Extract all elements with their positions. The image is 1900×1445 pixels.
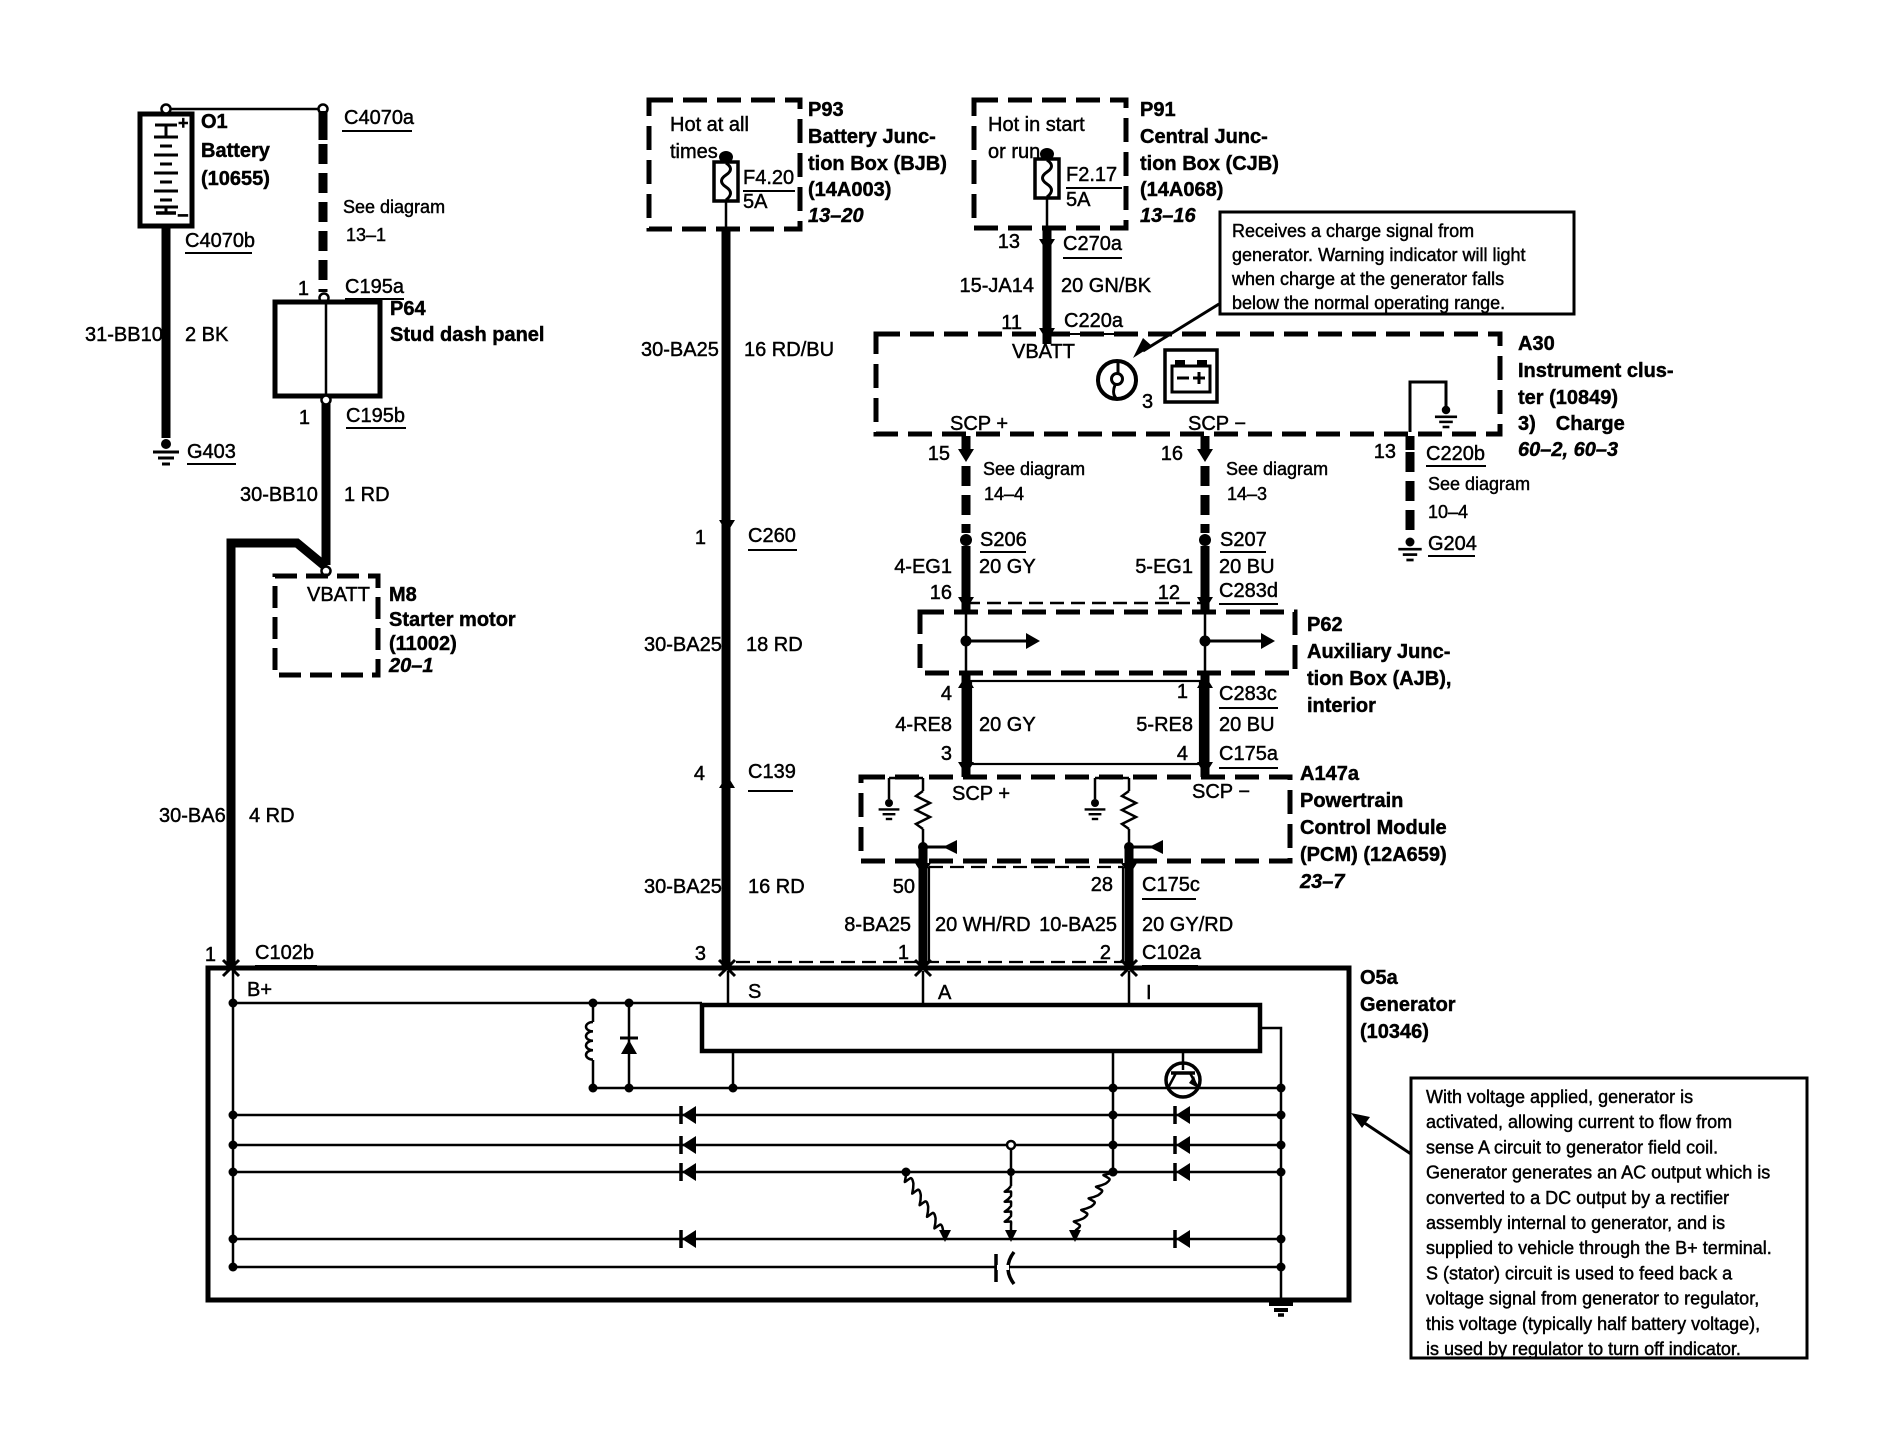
svg-text:20–1: 20–1: [388, 655, 434, 677]
svg-text:1 RD: 1 RD: [344, 484, 390, 506]
svg-text:20 GY/RD: 20 GY/RD: [1142, 914, 1233, 936]
svg-text:14–4: 14–4: [984, 484, 1024, 504]
svg-text:See diagram: See diagram: [343, 197, 445, 217]
svg-text:C283c: C283c: [1219, 683, 1277, 705]
svg-text:Battery Junc-: Battery Junc-: [808, 126, 936, 148]
svg-text:C260: C260: [748, 525, 796, 547]
svg-text:VBATT: VBATT: [307, 584, 370, 606]
svg-text:Generator: Generator: [1360, 994, 1456, 1016]
svg-text:is used by regulator to turn o: is used by regulator to turn off indicat…: [1426, 1339, 1741, 1359]
svg-text:C195b: C195b: [346, 405, 405, 427]
svg-text:4-RE8: 4-RE8: [895, 714, 952, 736]
svg-text:Hot at all: Hot at all: [670, 114, 749, 136]
svg-text:20 GY: 20 GY: [979, 714, 1036, 736]
svg-text:C4070b: C4070b: [185, 230, 255, 252]
svg-text:C4070a: C4070a: [344, 107, 415, 129]
svg-text:13: 13: [1374, 441, 1396, 463]
svg-text:1: 1: [205, 944, 216, 966]
svg-text:tion Box (BJB): tion Box (BJB): [808, 153, 947, 175]
svg-text:Control Module: Control Module: [1300, 817, 1447, 839]
svg-text:B+: B+: [247, 979, 272, 1001]
svg-text:23–7: 23–7: [1299, 871, 1345, 893]
svg-text:13–16: 13–16: [1140, 205, 1196, 227]
svg-text:A147a: A147a: [1300, 763, 1360, 785]
svg-text:S206: S206: [980, 529, 1027, 551]
svg-text:20 BU: 20 BU: [1219, 556, 1275, 578]
svg-text:30-BA25: 30-BA25: [644, 634, 722, 656]
svg-text:O1: O1: [201, 111, 228, 133]
svg-text:C102b: C102b: [255, 942, 314, 964]
svg-text:10–4: 10–4: [1428, 502, 1468, 522]
svg-text:O5a: O5a: [1360, 967, 1399, 989]
svg-text:4 RD: 4 RD: [249, 805, 295, 827]
svg-text:11: 11: [1001, 312, 1022, 334]
svg-text:30-BA6: 30-BA6: [159, 805, 226, 827]
svg-text:S207: S207: [1220, 529, 1267, 551]
svg-text:C220b: C220b: [1426, 443, 1485, 465]
svg-text:below the normal operating ran: below the normal operating range.: [1232, 293, 1505, 313]
svg-text:Hot in start: Hot in start: [988, 114, 1085, 136]
svg-text:F2.17: F2.17: [1066, 164, 1117, 186]
svg-text:ter (10849): ter (10849): [1518, 387, 1618, 409]
svg-text:activated, allowing current to: activated, allowing current to flow from: [1426, 1112, 1732, 1132]
svg-text:20 BU: 20 BU: [1219, 714, 1275, 736]
svg-text:Generator generates an AC outp: Generator generates an AC output which i…: [1426, 1163, 1770, 1183]
svg-text:Stud dash panel: Stud dash panel: [390, 324, 544, 346]
svg-text:(11002): (11002): [389, 633, 457, 655]
svg-text:16: 16: [930, 582, 952, 604]
svg-text:50: 50: [893, 876, 915, 898]
svg-text:C102a: C102a: [1142, 942, 1202, 964]
svg-text:SCP +: SCP +: [950, 413, 1008, 435]
svg-text:P91: P91: [1140, 99, 1176, 121]
svg-text:12: 12: [1158, 582, 1180, 604]
svg-text:when charge at the generator f: when charge at the generator falls: [1231, 269, 1504, 289]
svg-text:3: 3: [1142, 391, 1153, 413]
svg-text:5-RE8: 5-RE8: [1136, 714, 1193, 736]
svg-text:C270a: C270a: [1063, 233, 1123, 255]
svg-text:Starter motor: Starter motor: [389, 609, 516, 631]
svg-text:C139: C139: [748, 761, 796, 783]
svg-text:SCP +: SCP +: [952, 783, 1010, 805]
svg-text:See diagram: See diagram: [1428, 474, 1530, 494]
svg-text:Battery: Battery: [201, 140, 271, 162]
svg-text:generator. Warning indicator w: generator. Warning indicator will light: [1232, 245, 1525, 265]
svg-text:C283d: C283d: [1219, 580, 1278, 602]
svg-text:13–1: 13–1: [346, 225, 386, 245]
svg-text:With voltage applied, generato: With voltage applied, generator is: [1426, 1087, 1693, 1107]
svg-text:voltage signal from generator: voltage signal from generator to regulat…: [1426, 1289, 1759, 1309]
svg-text:Auxiliary Junc-: Auxiliary Junc-: [1307, 641, 1450, 663]
svg-text:8-BA25: 8-BA25: [844, 914, 911, 936]
svg-text:−: −: [177, 205, 189, 227]
svg-text:See diagram: See diagram: [983, 459, 1085, 479]
svg-text:Central Junc-: Central Junc-: [1140, 126, 1268, 148]
svg-text:C175c: C175c: [1142, 874, 1200, 896]
svg-text:G204: G204: [1428, 533, 1477, 555]
svg-text:10-BA25: 10-BA25: [1039, 914, 1117, 936]
svg-text:28: 28: [1091, 874, 1113, 896]
svg-text:supplied to vehicle through th: supplied to vehicle through the B+ termi…: [1426, 1238, 1772, 1258]
svg-text:1: 1: [695, 527, 706, 549]
svg-text:16: 16: [1161, 443, 1183, 465]
svg-text:1: 1: [898, 942, 909, 964]
svg-text:G403: G403: [187, 441, 236, 463]
svg-text:S (stator) circuit is used to: S (stator) circuit is used to feed back …: [1426, 1263, 1733, 1283]
svg-text:4: 4: [1177, 743, 1188, 765]
svg-text:A: A: [938, 982, 952, 1004]
svg-text:4: 4: [694, 763, 705, 785]
svg-text:Powertrain: Powertrain: [1300, 790, 1403, 812]
svg-text:C195a: C195a: [345, 276, 405, 298]
svg-text:4-EG1: 4-EG1: [894, 556, 952, 578]
svg-text:5A: 5A: [1066, 189, 1091, 211]
svg-text:See diagram: See diagram: [1226, 459, 1328, 479]
svg-text:C220a: C220a: [1064, 310, 1124, 332]
svg-text:20 GN/BK: 20 GN/BK: [1061, 275, 1152, 297]
svg-text:A30: A30: [1518, 333, 1555, 355]
svg-text:this voltage (typically half b: this voltage (typically half battery vol…: [1426, 1314, 1760, 1334]
svg-text:15: 15: [928, 443, 950, 465]
svg-text:30-BA25: 30-BA25: [644, 876, 722, 898]
svg-text:converted to a DC output by a: converted to a DC output by a rectifier: [1426, 1188, 1729, 1208]
svg-text:16 RD/BU: 16 RD/BU: [744, 339, 834, 361]
svg-text:assembly internal to generator: assembly internal to generator, and is: [1426, 1213, 1725, 1233]
svg-text:3: 3: [695, 943, 706, 965]
svg-text:or run: or run: [988, 141, 1040, 163]
svg-text:60–2, 60–3: 60–2, 60–3: [1518, 439, 1618, 461]
svg-text:13: 13: [998, 231, 1020, 253]
svg-text:4: 4: [941, 683, 952, 705]
svg-text:30-BB10: 30-BB10: [240, 484, 318, 506]
svg-text:1: 1: [1177, 681, 1188, 703]
svg-text:2: 2: [1100, 942, 1111, 964]
svg-text:16 RD: 16 RD: [748, 876, 805, 898]
svg-text:18 RD: 18 RD: [746, 634, 803, 656]
svg-text:+: +: [178, 113, 189, 133]
svg-text:31-BB10: 31-BB10: [85, 324, 163, 346]
svg-text:13–20: 13–20: [808, 205, 864, 227]
svg-text:Instrument clus-: Instrument clus-: [1518, 360, 1674, 382]
svg-text:P62: P62: [1307, 614, 1343, 636]
svg-text:interior: interior: [1307, 695, 1376, 717]
svg-text:3: 3: [941, 743, 952, 765]
svg-text:(10346): (10346): [1360, 1021, 1429, 1043]
svg-text:30-BA25: 30-BA25: [641, 339, 719, 361]
svg-text:1: 1: [298, 278, 309, 300]
svg-text:times: times: [670, 141, 718, 163]
svg-text:tion Box (AJB),: tion Box (AJB),: [1307, 668, 1451, 690]
svg-text:Receives a charge signal from: Receives a charge signal from: [1232, 221, 1474, 241]
svg-text:20 GY: 20 GY: [979, 556, 1036, 578]
svg-text:SCP −: SCP −: [1188, 413, 1246, 435]
svg-text:M8: M8: [389, 584, 417, 606]
svg-text:P64: P64: [390, 298, 426, 320]
svg-text:3) Charge: 3) Charge: [1518, 413, 1625, 435]
svg-text:P93: P93: [808, 99, 844, 121]
svg-text:I: I: [1146, 982, 1152, 1004]
svg-text:SCP −: SCP −: [1192, 781, 1250, 803]
svg-text:tion Box (CJB): tion Box (CJB): [1140, 153, 1279, 175]
svg-text:(10655): (10655): [201, 168, 270, 190]
svg-text:14–3: 14–3: [1227, 484, 1267, 504]
svg-text:VBATT: VBATT: [1012, 341, 1075, 363]
svg-text:5-EG1: 5-EG1: [1135, 556, 1193, 578]
svg-text:F4.20: F4.20: [743, 167, 794, 189]
svg-text:(PCM) (12A659): (PCM) (12A659): [1300, 844, 1447, 866]
svg-text:1: 1: [299, 407, 310, 429]
svg-text:15-JA14: 15-JA14: [960, 275, 1035, 297]
svg-text:5A: 5A: [743, 191, 768, 213]
svg-text:(14A068): (14A068): [1140, 179, 1223, 201]
svg-text:sense A circuit to generator f: sense A circuit to generator field coil.: [1426, 1137, 1718, 1157]
svg-text:(14A003): (14A003): [808, 179, 891, 201]
svg-text:S: S: [748, 981, 761, 1003]
svg-text:2 BK: 2 BK: [185, 324, 229, 346]
svg-text:20 WH/RD: 20 WH/RD: [935, 914, 1031, 936]
svg-text:C175a: C175a: [1219, 743, 1279, 765]
